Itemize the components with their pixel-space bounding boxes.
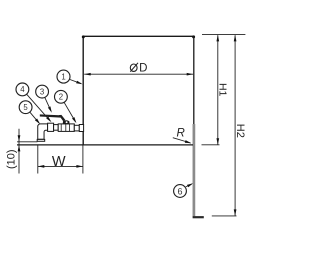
(10) tick extension line [17,141,37,143]
vessel top edge [83,35,195,37]
corner dot left [82,35,85,38]
vessel left wall [82,36,84,145]
union nut [48,123,54,131]
valve body [58,124,74,131]
phiD dimension line [84,73,193,75]
phiD arrow left [84,73,91,76]
valve stem dome [63,120,70,124]
W right extension line [82,145,84,173]
handle neck [59,115,66,121]
H1 arrow bottom [216,138,219,145]
(10) arrow lower [18,145,21,152]
H2 bottom extension line [212,215,237,217]
vessel floor line [17,144,193,146]
W arrow right [76,165,83,168]
valve lever handle [40,114,61,117]
pipe between union and valve [54,125,59,131]
H1 bottom extension line [202,144,220,146]
top extension line H1 H2 [202,34,245,36]
vessel right wall upper [193,36,195,125]
H2 arrow bottom [234,209,237,216]
H1 dimension line [217,35,219,144]
svg-text:6: 6 [177,186,182,196]
elbow outlet flare [37,139,45,141]
(10) dimension line [18,129,20,174]
H2 dimension line [234,35,236,216]
balloon 6 [174,185,187,198]
balloon 1 [57,70,70,83]
W arrow left [38,165,45,168]
vessel right wall lower thick (section) [193,124,196,216]
balloon 2 [55,90,68,103]
svg-text:W: W [52,154,66,170]
leader 1 [70,80,81,84]
svg-text:4: 4 [20,85,25,94]
valve body division lines [60,124,62,131]
leader 2 [64,102,75,121]
H2 arrow top [234,35,237,42]
svg-text:D: D [139,62,147,74]
svg-text:(10): (10) [6,149,18,169]
leader 4 [27,94,51,121]
valve stem highlight [66,121,68,123]
svg-text:1: 1 [61,72,65,81]
pipe to wall [74,125,79,131]
wall socket nut [79,125,83,132]
leader 6 [186,184,192,187]
corner dot right [192,35,195,38]
svg-text:3: 3 [40,87,44,96]
phiD label [130,64,137,71]
leader 5 [30,112,39,123]
svg-text:H2: H2 [234,124,246,138]
svg-text:R: R [177,127,185,139]
leader 3 [45,97,51,111]
balloon 5 [19,101,32,114]
svg-text:2: 2 [59,93,63,102]
balloon 4 [16,83,29,96]
H1 arrow top [216,35,219,42]
svg-text:H1: H1 [217,83,229,97]
phiD arrow right [187,73,194,76]
R leader [173,138,191,143]
W left extension line [37,145,39,173]
svg-text:5: 5 [23,103,28,112]
W dimension line [38,165,83,167]
R leader arrow [185,140,192,143]
balloon 3 [36,85,49,98]
skirt bottom foot [193,216,204,218]
elbow (drain) [38,124,48,139]
(10) arrow upper [18,135,21,142]
